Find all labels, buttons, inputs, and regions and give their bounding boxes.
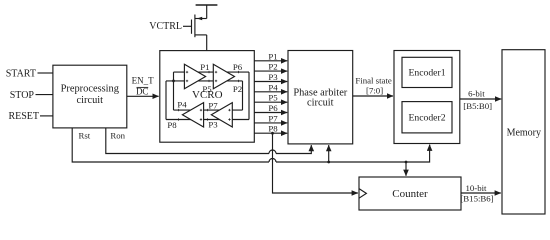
node P7 internal label bbox=[208, 101, 218, 111]
wire Final state [7:0] to encoder bbox=[353, 95, 393, 97]
block Counter bbox=[359, 177, 461, 210]
block Encoder outer box bbox=[394, 51, 460, 144]
svg-text:circuit: circuit bbox=[307, 97, 334, 108]
svg-text:VCTRL: VCTRL bbox=[149, 21, 182, 32]
wire right feedback P6 bbox=[248, 72, 250, 119]
svg-text:P2: P2 bbox=[268, 62, 277, 72]
wire phase output P8 bbox=[254, 132, 287, 134]
junction dot on P8 output bbox=[271, 132, 274, 135]
wire junction down into counter top bbox=[405, 162, 407, 176]
block Encoder1 bbox=[402, 57, 452, 87]
wire Rst continued bbox=[276, 145, 430, 162]
node P3 output label bbox=[268, 72, 278, 82]
svg-text:[B5:B0]: [B5:B0] bbox=[463, 101, 492, 111]
svg-text:P3: P3 bbox=[208, 120, 218, 130]
wire STOP to preprocessing bbox=[36, 94, 54, 96]
svg-text:EN_T: EN_T bbox=[132, 75, 154, 85]
wire phase output P3 bbox=[254, 81, 287, 83]
wire Ron: preprocessing down and right into arbiter bbox=[106, 128, 269, 154]
polarity marks stage 3 bbox=[206, 109, 230, 121]
block Encoder2 bbox=[402, 102, 452, 133]
polarity marks stage 1 bbox=[186, 71, 210, 82]
wire phase output P6 bbox=[254, 112, 287, 114]
node Rst label bbox=[79, 131, 91, 141]
wire 6-bit [B5:B0] encoder to memory bbox=[460, 98, 501, 100]
svg-text:Memory: Memory bbox=[507, 128, 541, 139]
power rail (supply bar) bbox=[196, 4, 218, 6]
wire top differential lower (P5/P2 level) bbox=[166, 80, 243, 82]
block Preprocessing circuit bbox=[53, 65, 127, 128]
svg-text:RESET: RESET bbox=[8, 111, 39, 122]
junction dot crossing B bbox=[172, 80, 175, 83]
svg-text:P5: P5 bbox=[202, 84, 212, 94]
svg-text:P6: P6 bbox=[233, 62, 243, 72]
wire 10-bit [B15:B6] counter to memory bbox=[461, 192, 501, 194]
svg-text:circuit: circuit bbox=[77, 95, 104, 106]
arrowhead into counter clock bbox=[352, 192, 358, 194]
wire P8 down to counter clock bbox=[273, 133, 358, 193]
counter clock input triangle bbox=[359, 189, 366, 199]
wire RESET to preprocessing bbox=[40, 115, 53, 117]
svg-text:Rst: Rst bbox=[79, 131, 91, 141]
svg-text:P7: P7 bbox=[208, 101, 218, 111]
overline of DC bbox=[137, 86, 149, 88]
node P6 output label bbox=[268, 103, 278, 113]
node P8 internal label bbox=[167, 120, 177, 130]
svg-text:P6: P6 bbox=[268, 103, 278, 113]
svg-text:P1: P1 bbox=[200, 62, 209, 72]
svg-text:6-bit: 6-bit bbox=[468, 88, 485, 98]
node P3 internal label bbox=[208, 120, 218, 130]
node P2 internal label bbox=[233, 84, 242, 94]
wire top differential upper (P1/P6 level) bbox=[174, 71, 250, 73]
svg-text:STOP: STOP bbox=[10, 90, 35, 101]
wire START to preprocessing bbox=[38, 72, 54, 74]
node P1 output label bbox=[268, 51, 277, 61]
svg-text:P5: P5 bbox=[268, 93, 278, 103]
svg-text:Counter: Counter bbox=[392, 188, 428, 200]
svg-text:Encoder1: Encoder1 bbox=[408, 67, 445, 78]
wire phase output P7 bbox=[254, 122, 287, 124]
svg-text:P7: P7 bbox=[268, 113, 278, 123]
wire right feedback P2 bbox=[242, 81, 244, 110]
arrowhead Ron into arbiter bottom bbox=[310, 145, 312, 150]
node VCRO label bbox=[192, 89, 223, 101]
node VCTRL label bbox=[149, 21, 182, 32]
wire EN_T / DC preprocessing to VCRO bbox=[127, 95, 159, 97]
svg-text:P4: P4 bbox=[177, 100, 187, 110]
wire phase output P2 bbox=[254, 70, 287, 72]
hop on Rst wire over P8 feed bbox=[269, 159, 276, 162]
arrowhead Rst into encoder bottom bbox=[429, 145, 431, 150]
polarity marks stage 4 bbox=[177, 109, 202, 121]
svg-text:10-bit: 10-bit bbox=[465, 183, 487, 193]
svg-text:[7:0]: [7:0] bbox=[366, 86, 383, 96]
svg-text:Ron: Ron bbox=[110, 131, 125, 141]
node Final state label bbox=[355, 75, 391, 85]
svg-text:Encoder2: Encoder2 bbox=[408, 113, 445, 124]
node RESET bbox=[8, 111, 39, 122]
node P4 output label bbox=[268, 82, 278, 92]
wire phase output P1 bbox=[254, 60, 287, 62]
wire bottom differential lower (P8/P3 level) bbox=[166, 119, 249, 121]
block Memory bbox=[502, 50, 545, 214]
buffer stage 3 bbox=[211, 103, 232, 127]
node P7 output label bbox=[268, 113, 278, 123]
block Phase arbiter circuit bbox=[288, 51, 353, 144]
svg-text:START: START bbox=[6, 68, 36, 79]
wire drain to VCRO top bbox=[206, 35, 208, 51]
buffer stage 1 bbox=[184, 64, 205, 88]
polarity marks stage 2 bbox=[215, 71, 240, 82]
wire bottom differential upper (P4/P7 level) bbox=[174, 109, 243, 111]
wire phase output P4 bbox=[254, 91, 287, 93]
svg-text:P2: P2 bbox=[233, 84, 242, 94]
node P1 internal label bbox=[200, 62, 209, 72]
svg-text:P3: P3 bbox=[268, 72, 278, 82]
node Ron label bbox=[110, 131, 125, 141]
wire left feedback A bbox=[165, 81, 167, 120]
node 6-bit label bbox=[468, 88, 485, 98]
node 10-bit label bbox=[465, 183, 487, 193]
node START bbox=[6, 68, 36, 79]
block VCRO box bbox=[160, 51, 255, 143]
buffer stage 2 bbox=[213, 64, 234, 88]
buffer stage 4 bbox=[182, 103, 203, 127]
node DC(bar) label bbox=[136, 86, 149, 96]
node [7:0] label bbox=[366, 86, 383, 96]
wire left feedback B bbox=[173, 72, 175, 110]
node P2 output label bbox=[268, 62, 277, 72]
svg-text:P1: P1 bbox=[268, 51, 277, 61]
node [B15:B6] label bbox=[460, 193, 493, 203]
svg-text:P8: P8 bbox=[167, 120, 177, 130]
node [B5:B0] label bbox=[463, 101, 492, 111]
junction dot Rst to counter bbox=[405, 161, 408, 164]
node P6 internal label bbox=[233, 62, 243, 72]
node STOP bbox=[10, 90, 35, 101]
svg-text:Preprocessing: Preprocessing bbox=[61, 83, 119, 94]
node P5 output label bbox=[268, 93, 278, 103]
wire junction up into arbiter bbox=[328, 145, 330, 162]
node P5 internal label bbox=[202, 84, 212, 94]
node P4 internal label bbox=[177, 100, 187, 110]
wire Ron continued up into arbiter bbox=[276, 147, 311, 154]
svg-text:Final state: Final state bbox=[355, 75, 391, 85]
wire Rst: preprocessing down and right to counter/encoder bbox=[72, 128, 269, 162]
node EN_T label bbox=[132, 75, 154, 85]
transistor M1 (PMOS current source) bbox=[183, 5, 207, 37]
svg-text:[B15:B6]: [B15:B6] bbox=[460, 193, 493, 203]
junction dot Rst to arbiter bbox=[327, 161, 330, 164]
wire phase output P5 bbox=[254, 101, 287, 103]
node P8 output label bbox=[268, 124, 278, 134]
svg-text:P4: P4 bbox=[268, 82, 278, 92]
hop on Ron wire over P8 feed bbox=[269, 150, 276, 154]
